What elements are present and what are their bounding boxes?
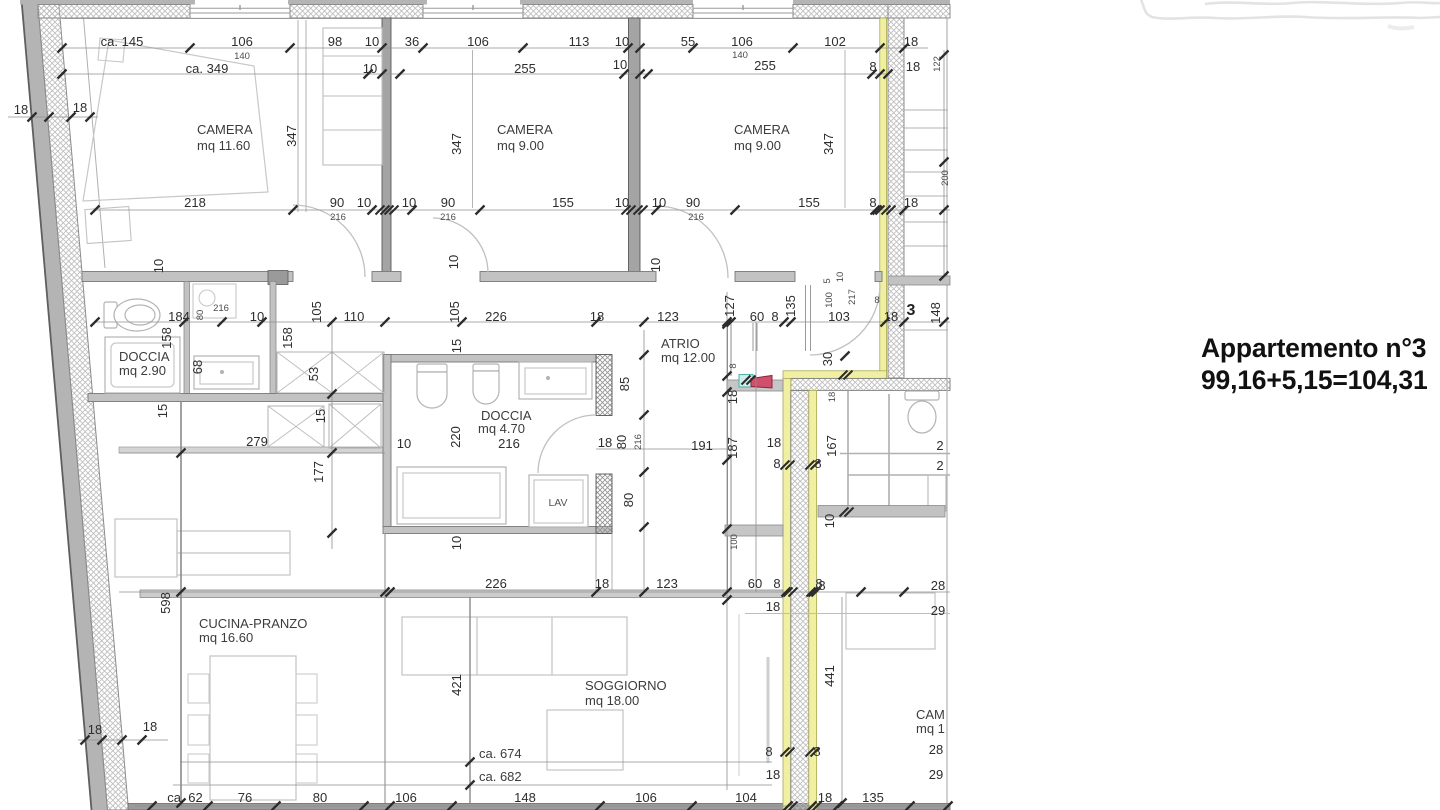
svg-text:DOCCIA: DOCCIA <box>119 349 170 364</box>
sofa <box>402 617 627 675</box>
window top 1 <box>190 5 290 13</box>
dim line 191 row <box>596 448 731 450</box>
svg-text:347: 347 <box>449 133 464 155</box>
dim line 441 vertical <box>841 597 843 803</box>
camera1 closet left edge lines <box>297 20 299 212</box>
svg-text:18: 18 <box>14 102 28 117</box>
doccia2 counter bottom <box>397 467 506 524</box>
camera1 closet shelves <box>323 28 382 165</box>
svg-text:104: 104 <box>735 790 757 805</box>
svg-text:SOGGIORNO: SOGGIORNO <box>585 678 667 693</box>
svg-text:LAV: LAV <box>548 497 567 509</box>
X closet row2 left <box>268 406 324 447</box>
right outer wall hatch <box>888 18 904 378</box>
svg-text:421: 421 <box>449 674 464 696</box>
dim line atrio vertical <box>643 330 645 592</box>
X closet row1 left <box>277 352 332 393</box>
svg-text:mq 9.00: mq 9.00 <box>497 138 544 153</box>
svg-text:85: 85 <box>617 377 632 391</box>
svg-text:441: 441 <box>822 665 837 687</box>
svg-text:8: 8 <box>869 195 876 210</box>
svg-text:10: 10 <box>446 255 461 269</box>
svg-text:80: 80 <box>614 435 629 449</box>
dim line right 122-200 vertical <box>943 50 945 276</box>
svg-text:18: 18 <box>766 599 780 614</box>
X closet row2 right <box>329 404 381 448</box>
dim line cucina vertical <box>384 533 386 803</box>
camera2 window center line <box>472 50 474 208</box>
faint hand sketch top right <box>1141 0 1440 28</box>
svg-text:8: 8 <box>728 363 739 368</box>
left outer wall gray band <box>22 0 108 810</box>
svg-text:8: 8 <box>818 578 825 593</box>
svg-text:8: 8 <box>874 295 879 306</box>
svg-text:255: 255 <box>754 58 776 73</box>
camera1 small table <box>85 207 131 244</box>
atrio door leaf <box>752 323 754 351</box>
svg-text:18: 18 <box>725 390 740 404</box>
svg-text:mq 11.60: mq 11.60 <box>197 138 250 153</box>
svg-text:10: 10 <box>449 536 464 550</box>
dim line top row2 <box>62 73 888 75</box>
neighbor horizontal wall lines top right <box>904 110 948 246</box>
cucina chairs <box>188 674 317 783</box>
door arc camera1 <box>293 205 365 277</box>
soggiorno right vertical strip <box>767 657 770 763</box>
svg-text:18: 18 <box>767 435 781 450</box>
svg-text:187: 187 <box>725 437 740 459</box>
camera1 nightstand <box>98 38 125 62</box>
svg-text:226: 226 <box>485 576 507 591</box>
window top 2 <box>423 5 523 13</box>
svg-text:216: 216 <box>633 434 644 450</box>
svg-text:10: 10 <box>397 436 411 451</box>
soggiorno table <box>547 710 623 770</box>
corridor bottom wall left <box>88 394 385 402</box>
door arc camera3 <box>656 206 728 278</box>
svg-text:18: 18 <box>904 195 918 210</box>
svg-text:10: 10 <box>652 195 666 210</box>
wall camera1/camera2 divider <box>382 18 391 277</box>
atrio lower band <box>725 525 783 536</box>
svg-text:53: 53 <box>306 367 321 381</box>
dim line cameras bottom <box>95 209 950 211</box>
dim line 598 vertical <box>180 401 182 806</box>
dim line middle row <box>95 321 950 323</box>
camera3 window center line <box>844 50 846 208</box>
svg-text:18: 18 <box>884 309 898 324</box>
cyan vent mark <box>739 375 753 388</box>
wall camera2/camera3 divider <box>629 18 641 277</box>
svg-text:8: 8 <box>773 456 780 471</box>
cucina table <box>210 656 296 800</box>
svg-text:2: 2 <box>936 438 943 453</box>
svg-text:mq 16.60: mq 16.60 <box>199 630 253 645</box>
wall pillar <box>268 271 288 285</box>
soggiorno top wall <box>140 590 783 598</box>
svg-text:90: 90 <box>686 195 700 210</box>
svg-text:100: 100 <box>824 292 835 308</box>
svg-text:106: 106 <box>467 34 489 49</box>
svg-text:18: 18 <box>590 309 604 324</box>
svg-text:100: 100 <box>729 534 740 550</box>
svg-text:ca. 62: ca. 62 <box>167 790 202 805</box>
svg-text:mq 4.70: mq 4.70 <box>478 421 525 436</box>
dim line left wall 18 <box>8 116 98 118</box>
yellow descending strip east <box>809 390 817 810</box>
svg-text:140: 140 <box>732 50 748 61</box>
window top 3 <box>693 5 793 13</box>
neighbor shower tray <box>928 475 946 511</box>
top wall gray strips <box>20 0 950 5</box>
svg-text:60: 60 <box>750 309 764 324</box>
neighbor wall below right hatch <box>888 276 950 285</box>
svg-text:216: 216 <box>498 436 520 451</box>
svg-text:ATRIO: ATRIO <box>661 336 700 351</box>
svg-text:29: 29 <box>929 767 943 782</box>
door arc doccia2 <box>538 415 596 473</box>
svg-text:ca. 145: ca. 145 <box>101 34 144 49</box>
svg-text:10: 10 <box>357 195 371 210</box>
svg-text:148: 148 <box>514 790 536 805</box>
svg-text:CUCINA-PRANZO: CUCINA-PRANZO <box>199 616 307 631</box>
svg-text:10: 10 <box>365 34 379 49</box>
X closet row1 right <box>332 352 384 393</box>
dimension ticks vertical lines <box>177 51 949 810</box>
left wall inner face line camera1 <box>84 18 106 268</box>
svg-text:18: 18 <box>73 100 87 115</box>
svg-text:80: 80 <box>313 790 327 805</box>
svg-text:28: 28 <box>931 578 945 593</box>
svg-text:10: 10 <box>648 258 663 272</box>
svg-text:598: 598 <box>158 592 173 614</box>
doccia2 toilet <box>417 364 447 408</box>
svg-text:8: 8 <box>814 456 821 471</box>
svg-text:CAMERA: CAMERA <box>197 122 253 137</box>
radiator niche band <box>727 380 783 391</box>
svg-text:155: 155 <box>552 195 574 210</box>
svg-text:29: 29 <box>931 603 945 618</box>
dim line bottom row <box>135 805 950 807</box>
svg-text:ca. 682: ca. 682 <box>479 769 522 784</box>
dim line left wall bottom 18 <box>78 739 168 741</box>
svg-text:347: 347 <box>821 133 836 155</box>
doccia1 right wall <box>184 282 190 395</box>
svg-text:5: 5 <box>822 278 833 283</box>
svg-text:10: 10 <box>835 272 846 283</box>
svg-text:10: 10 <box>250 309 264 324</box>
svg-text:10: 10 <box>151 259 166 273</box>
camera1 area outline quad <box>83 40 268 201</box>
svg-text:106: 106 <box>395 790 417 805</box>
svg-text:191: 191 <box>691 438 713 453</box>
doccia1 toilet <box>104 299 160 331</box>
svg-text:8: 8 <box>869 59 876 74</box>
svg-text:mq 9.00: mq 9.00 <box>734 138 781 153</box>
svg-text:28: 28 <box>929 742 943 757</box>
svg-text:90: 90 <box>441 195 455 210</box>
party wall hatch horizontal <box>791 378 950 390</box>
corridor top wall segments <box>82 272 882 282</box>
plumbing hatch wall lower <box>596 474 612 534</box>
svg-text:30: 30 <box>820 352 835 366</box>
doccia2 sink counter top <box>519 362 592 399</box>
svg-text:18: 18 <box>88 722 102 737</box>
svg-text:184: 184 <box>168 309 190 324</box>
svg-text:ca. 349: ca. 349 <box>186 61 229 76</box>
svg-text:mq 12.00: mq 12.00 <box>661 350 715 365</box>
svg-text:106: 106 <box>231 34 253 49</box>
svg-text:10: 10 <box>615 34 629 49</box>
svg-text:347: 347 <box>284 125 299 147</box>
svg-text:216: 216 <box>440 212 456 223</box>
svg-text:18: 18 <box>595 576 609 591</box>
soggiorno minor vertical line <box>738 614 740 776</box>
dim line 279 row <box>119 452 385 454</box>
svg-text:255: 255 <box>514 61 536 76</box>
svg-text:279: 279 <box>246 434 268 449</box>
svg-text:122: 122 <box>932 56 943 72</box>
alcove right wall <box>270 282 276 395</box>
svg-text:Appartemento n°3: Appartemento n°3 <box>1201 333 1426 363</box>
neighbor landing line <box>904 329 948 331</box>
svg-text:3: 3 <box>907 302 916 319</box>
door arc camera2 <box>433 218 488 273</box>
dimension ticks horizontal lines <box>28 44 953 810</box>
dim line ca674 row <box>180 761 772 763</box>
svg-text:55: 55 <box>681 34 695 49</box>
neighbor bath line2 <box>848 474 950 476</box>
svg-text:106: 106 <box>731 34 753 49</box>
svg-text:mq 2.90: mq 2.90 <box>119 363 166 378</box>
party wall hatch vertical <box>791 390 809 810</box>
svg-text:15: 15 <box>449 339 464 353</box>
neighbor toilet <box>905 391 939 433</box>
left outer wall hatch band <box>38 0 129 810</box>
svg-text:76: 76 <box>238 790 252 805</box>
svg-text:148: 148 <box>928 302 943 324</box>
svg-text:110: 110 <box>344 309 365 324</box>
svg-text:103: 103 <box>828 309 850 324</box>
svg-text:mq 18.00: mq 18.00 <box>585 693 639 708</box>
dimension and room texts <box>14 34 951 805</box>
svg-text:ca. 674: ca. 674 <box>479 746 522 761</box>
svg-text:80: 80 <box>195 310 206 321</box>
svg-text:158: 158 <box>280 327 295 349</box>
dim line closet vertical <box>331 322 333 549</box>
top wall hatch band <box>38 5 950 19</box>
atrio right thin wall <box>728 322 732 590</box>
svg-text:226: 226 <box>485 309 507 324</box>
svg-text:8: 8 <box>773 576 780 591</box>
svg-text:18: 18 <box>766 767 780 782</box>
lav wall extension lines <box>595 534 597 591</box>
dim line 60 vertical <box>755 322 757 592</box>
svg-text:18: 18 <box>143 719 157 734</box>
svg-text:18: 18 <box>906 59 920 74</box>
svg-text:90: 90 <box>330 195 344 210</box>
svg-text:10: 10 <box>615 195 629 210</box>
svg-text:177: 177 <box>311 461 326 483</box>
svg-text:105: 105 <box>447 301 462 323</box>
yellow descending strip west <box>783 378 791 810</box>
dim line top row1 <box>62 47 928 49</box>
cucina top wall line <box>119 447 385 453</box>
svg-text:18: 18 <box>827 392 838 403</box>
yellow horizontal strip <box>783 371 887 379</box>
svg-text:18: 18 <box>598 435 612 450</box>
svg-text:140: 140 <box>234 51 250 62</box>
svg-text:127: 127 <box>722 295 737 317</box>
svg-text:10: 10 <box>822 514 837 528</box>
svg-text:216: 216 <box>688 212 704 223</box>
svg-text:CAM: CAM <box>916 707 945 722</box>
dim line atrio right vertical <box>726 292 728 790</box>
dim line ca682 row <box>173 784 772 786</box>
yellow highlight right vertical <box>880 18 887 372</box>
svg-text:155: 155 <box>798 195 820 210</box>
neighbor furniture rect <box>846 593 935 649</box>
neighbor bath line1 <box>840 453 950 455</box>
svg-text:102: 102 <box>824 34 846 49</box>
alcove sink <box>194 356 259 389</box>
neighbor bath left wall <box>847 391 849 508</box>
svg-text:99,16+5,15=104,31: 99,16+5,15=104,31 <box>1201 365 1428 395</box>
inner top line <box>62 17 888 19</box>
svg-text:98: 98 <box>328 34 342 49</box>
svg-text:8: 8 <box>813 744 820 759</box>
svg-text:CAMERA: CAMERA <box>497 122 553 137</box>
doccia2 top wall <box>383 355 596 363</box>
svg-text:18: 18 <box>904 34 918 49</box>
alcove washer <box>193 284 236 318</box>
plumbing hatch wall upper <box>596 355 612 416</box>
dim line 421 vertical <box>469 597 471 803</box>
svg-text:80: 80 <box>621 493 636 507</box>
neighbor bath inner wall <box>888 394 890 508</box>
svg-text:10: 10 <box>363 61 377 76</box>
svg-text:106: 106 <box>635 790 657 805</box>
bottom wall band <box>128 804 950 810</box>
svg-text:218: 218 <box>184 195 206 210</box>
svg-text:10: 10 <box>613 57 627 72</box>
neighbor wall band mid <box>818 506 945 518</box>
neighbor right boundary line <box>946 18 948 803</box>
svg-text:15: 15 <box>155 404 170 418</box>
svg-text:68: 68 <box>190 360 205 374</box>
svg-text:113: 113 <box>569 34 590 49</box>
neighbor camera top line <box>745 613 950 615</box>
LAV box <box>529 475 588 527</box>
svg-text:36: 36 <box>405 34 419 49</box>
svg-text:135: 135 <box>862 790 884 805</box>
svg-text:8: 8 <box>765 744 772 759</box>
svg-text:217: 217 <box>847 289 858 305</box>
dim line soggiorno row <box>119 591 950 593</box>
red radiator mark <box>751 376 772 389</box>
entrance door leaf <box>805 285 807 351</box>
svg-text:2: 2 <box>936 458 943 473</box>
svg-text:10: 10 <box>402 195 416 210</box>
svg-text:158: 158 <box>159 327 174 349</box>
svg-text:CAMERA: CAMERA <box>734 122 790 137</box>
doccia2 bidet <box>473 364 499 404</box>
svg-text:220: 220 <box>448 426 463 448</box>
svg-text:167: 167 <box>824 435 839 457</box>
svg-text:mq 1: mq 1 <box>916 721 945 736</box>
doccia2 left wall <box>383 355 391 528</box>
svg-text:123: 123 <box>656 576 678 591</box>
svg-text:105: 105 <box>309 301 324 323</box>
svg-text:60: 60 <box>748 576 762 591</box>
svg-text:18: 18 <box>818 790 832 805</box>
svg-text:8: 8 <box>771 309 778 324</box>
svg-text:216: 216 <box>330 212 346 223</box>
kitchen counter left <box>115 519 290 577</box>
svg-text:200: 200 <box>940 170 951 186</box>
svg-text:216: 216 <box>213 303 229 314</box>
doccia2 bottom wall <box>383 527 612 534</box>
door arc entrance <box>810 285 880 355</box>
doccia1 shower tray <box>105 337 180 393</box>
svg-text:15: 15 <box>313 409 328 423</box>
svg-text:135: 135 <box>783 295 798 317</box>
svg-text:123: 123 <box>657 309 679 324</box>
